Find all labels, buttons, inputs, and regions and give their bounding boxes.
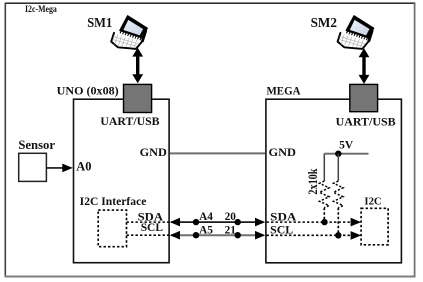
dashed wire SDA inside MEGA <box>267 221 352 223</box>
svg-text:SCL: SCL <box>141 222 164 234</box>
svg-text:MEGA: MEGA <box>267 84 301 98</box>
node junction on 5V rail <box>335 151 341 157</box>
node dot SDA right <box>235 219 241 225</box>
resistor R2 10k pullup SCL <box>334 181 344 208</box>
svg-text:GND: GND <box>269 145 297 159</box>
svg-text:A4: A4 <box>199 211 213 223</box>
UART/USB connector block U1 (UNO) <box>124 84 152 112</box>
sensor box <box>19 153 47 181</box>
wire 5V rail <box>324 153 368 155</box>
svg-text:A5: A5 <box>199 224 213 236</box>
svg-text:SM2: SM2 <box>311 15 338 30</box>
wire SDA bus UNO-MEGA <box>171 221 264 223</box>
laptop icon SM1 <box>111 16 147 49</box>
arrowhead SCL into I2C device <box>351 231 362 240</box>
arrowhead SDA into I2C device <box>351 218 362 227</box>
node junction R1-SDA <box>321 219 327 225</box>
svg-text:UNO (0x08): UNO (0x08) <box>57 84 119 98</box>
svg-text:UART/USB: UART/USB <box>100 114 159 128</box>
wire R2 to SCL node <box>337 208 339 236</box>
UNO board box <box>74 99 170 263</box>
svg-text:20: 20 <box>225 211 237 223</box>
svg-text:21: 21 <box>225 224 237 236</box>
svg-text:SDA: SDA <box>270 211 297 223</box>
arrowhead SCL into UNO <box>170 231 180 240</box>
svg-text:SM1: SM1 <box>87 15 112 30</box>
arrowhead SDA into MEGA <box>255 218 265 227</box>
I2C device dashed box <box>361 208 388 245</box>
MEGA board box <box>266 99 402 263</box>
svg-text:I2c-Mega: I2c-Mega <box>25 4 57 15</box>
arrowhead SDA into UNO <box>170 218 180 227</box>
node dot SCL left <box>193 232 199 238</box>
UART link arrow SM1-UNO <box>132 48 143 84</box>
UART/USB connector block U2 (MEGA) <box>350 84 378 111</box>
svg-text:I2C: I2C <box>364 196 381 208</box>
svg-text:A0: A0 <box>76 160 91 174</box>
node junction R2-SCL <box>335 232 341 238</box>
node dot SDA left <box>193 219 199 225</box>
wire 5V to resistor R1 <box>323 154 325 181</box>
outer border frame <box>5 2 416 4</box>
wire R1 to SDA node <box>323 208 325 222</box>
dashed wire SDA inside UNO <box>127 221 170 223</box>
wire SCL bus UNO-MEGA <box>171 234 264 236</box>
svg-text:I2C Interface: I2C Interface <box>80 196 147 208</box>
I2C interface dashed box (UNO) <box>98 210 126 247</box>
arrowhead into A0 <box>62 164 73 173</box>
UART link arrow SM2-MEGA <box>359 48 370 84</box>
svg-text:2x10k: 2x10k <box>306 169 320 195</box>
wire 5V to resistor R2 <box>337 154 339 181</box>
svg-text:UART/USB: UART/USB <box>336 115 396 129</box>
dashed wire SCL inside UNO <box>127 234 170 236</box>
node dot SCL right <box>235 232 241 238</box>
laptop icon SM2 <box>338 16 374 49</box>
wire GND UNO to MEGA <box>170 152 265 154</box>
dashed wire SCL inside MEGA <box>267 234 352 236</box>
svg-text:GND: GND <box>140 145 168 159</box>
wire sensor to A0 <box>46 167 63 169</box>
svg-text:Sensor: Sensor <box>18 138 55 152</box>
arrowhead SCL into MEGA <box>255 231 265 240</box>
resistor R1 10k pullup SDA <box>320 181 330 208</box>
svg-text:5V: 5V <box>339 137 353 151</box>
